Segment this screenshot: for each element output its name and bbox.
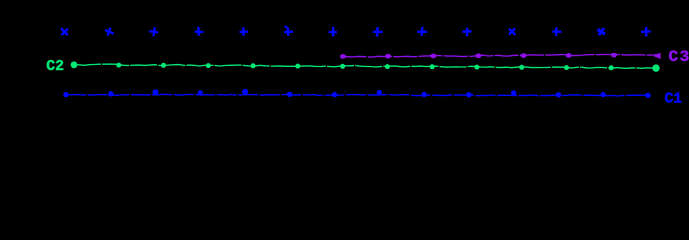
label C1 [665,91,683,107]
scatter marker 12 [552,27,561,36]
series C1 marker 12 [556,92,561,97]
series C1 marker 10 [466,92,471,97]
series C2 marker 10 [474,65,479,70]
series C2 marker 4 [206,63,211,68]
scatter marker 7 [329,27,337,37]
series C2 marker 9 [430,64,435,69]
series C2 line [74,64,657,68]
series C3 marker 6 [566,53,572,58]
label C3 [669,48,689,66]
series C1 marker 11 [511,90,516,95]
label C2 [46,59,64,75]
series C2 marker 3 [161,63,166,68]
series C1 marker 1 [63,92,68,97]
series C1 line [66,94,648,96]
series C3 marker 3 [430,54,436,59]
series C1 marker 7 [332,92,337,97]
series C2 marker 8 [385,64,390,69]
series C3 end marker (triangle) [654,52,661,59]
series C3 marker 4 [475,53,481,58]
series C3 marker 2 [385,54,391,59]
series C2 marker 7 [340,64,345,69]
svg-text:C1: C1 [665,91,683,107]
scatter marker 6 [284,25,294,36]
scatter marker 9 [417,27,427,37]
scatter marker 14 [641,27,651,37]
scatter marker 13 [595,26,607,38]
svg-text:C3: C3 [669,48,689,66]
series C3 marker 7 [611,53,617,58]
series C1 marker 2 [108,91,113,96]
series C1 marker 5 [242,89,248,95]
series C2 marker 2 [116,63,121,68]
scatter marker 10 [462,28,471,37]
series C2 marker 6 [295,64,300,69]
series C2 marker 14 [652,64,659,71]
scatter marker 1 [58,25,71,38]
series C1 marker 13 [601,92,606,97]
series C1 marker 6 [287,92,292,97]
scatter marker 11 [506,25,519,38]
scatter marker 5 [239,27,248,36]
scatter marker 4 [195,27,204,36]
series C3 marker 5 [521,53,527,58]
scatter marker 2 [104,26,116,37]
series C1 marker 3 [153,89,159,95]
series C3 marker 1 [340,54,346,59]
series C2 marker 1 [71,61,78,68]
scatter marker 8 [373,27,383,37]
series C1 marker 9 [422,92,427,97]
series C2 marker 5 [251,63,256,68]
series C3 line [343,54,660,57]
svg-text:C2: C2 [46,59,64,75]
series C2 marker 11 [519,65,524,70]
scatter marker 3 [149,26,159,36]
series C1 marker 4 [198,90,203,95]
series C1 marker 14 [645,93,650,98]
series C2 marker 12 [564,65,569,70]
series C1 marker 8 [377,90,382,95]
series C2 marker 13 [609,65,614,70]
